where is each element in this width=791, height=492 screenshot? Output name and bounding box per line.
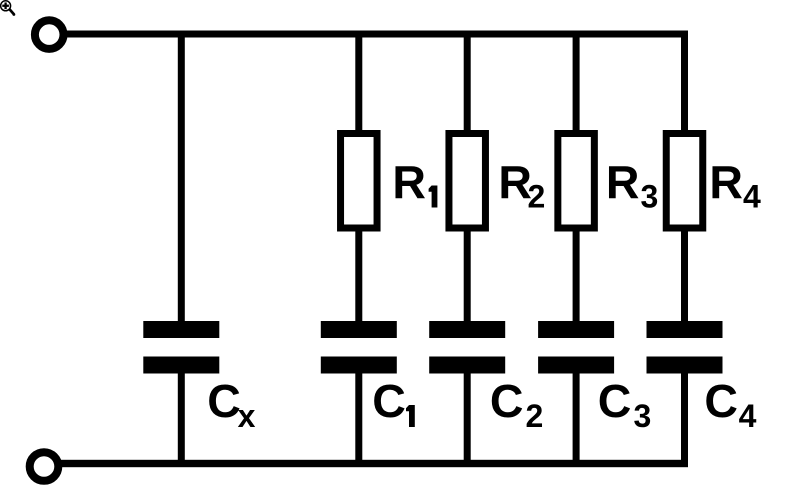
label C1 [372, 375, 415, 427]
svg-text:3: 3 [641, 179, 659, 215]
label C2 [490, 375, 543, 434]
resistor R2 [449, 134, 486, 229]
wire: branch 2 bottom segment [464, 374, 471, 468]
svg-text:R: R [392, 156, 426, 208]
bottom bus wire [57, 460, 688, 467]
svg-text:C: C [490, 375, 524, 427]
wire: branch 1 bottom segment [355, 374, 362, 468]
resistor R1 [341, 134, 378, 229]
wire: branch 3 top segment [573, 31, 580, 134]
wire: branch 4 middle segment [681, 228, 688, 321]
capacitor Cx [143, 321, 219, 374]
svg-text:R: R [709, 156, 743, 208]
wire: branch 1 middle segment [355, 228, 362, 321]
wire: Cx branch lower segment [178, 374, 185, 468]
capacitor C1 [321, 321, 397, 374]
bottom input terminal [30, 452, 59, 481]
svg-text:4: 4 [743, 179, 761, 215]
wire: branch 1 top segment [355, 31, 362, 134]
svg-text:2: 2 [526, 398, 544, 434]
top bus wire [62, 31, 688, 38]
capacitor C4 [647, 321, 723, 374]
svg-text:C: C [207, 375, 241, 427]
label R3 [606, 156, 658, 215]
wire: Cx branch upper segment [178, 31, 185, 322]
wire: branch 3 middle segment [573, 228, 580, 321]
label R1 [392, 156, 437, 208]
resistor R3 [558, 134, 595, 229]
svg-text:4: 4 [739, 398, 757, 434]
wire: branch 3 bottom segment [573, 374, 580, 468]
wire: branch 4 bottom segment [681, 374, 688, 468]
label C3 [598, 375, 651, 434]
wire: branch 2 middle segment [464, 228, 471, 321]
capacitor C2 [429, 321, 505, 374]
svg-text:2: 2 [528, 179, 546, 215]
label R2 [498, 156, 545, 215]
zoom cursor icon [1, 1, 16, 16]
wire: branch 4 top segment [681, 31, 688, 134]
resistor R4 [666, 134, 703, 229]
top input terminal [35, 20, 64, 49]
label Cx [207, 375, 255, 434]
svg-text:C: C [704, 375, 738, 427]
svg-text:x: x [238, 398, 256, 434]
svg-text:C: C [598, 375, 632, 427]
wire: branch 2 top segment [464, 31, 471, 134]
capacitor C3 [538, 321, 614, 374]
label R4 [709, 156, 761, 215]
svg-text:C: C [372, 375, 406, 427]
svg-text:R: R [606, 156, 640, 208]
label C4 [704, 375, 756, 434]
svg-text:3: 3 [634, 398, 652, 434]
